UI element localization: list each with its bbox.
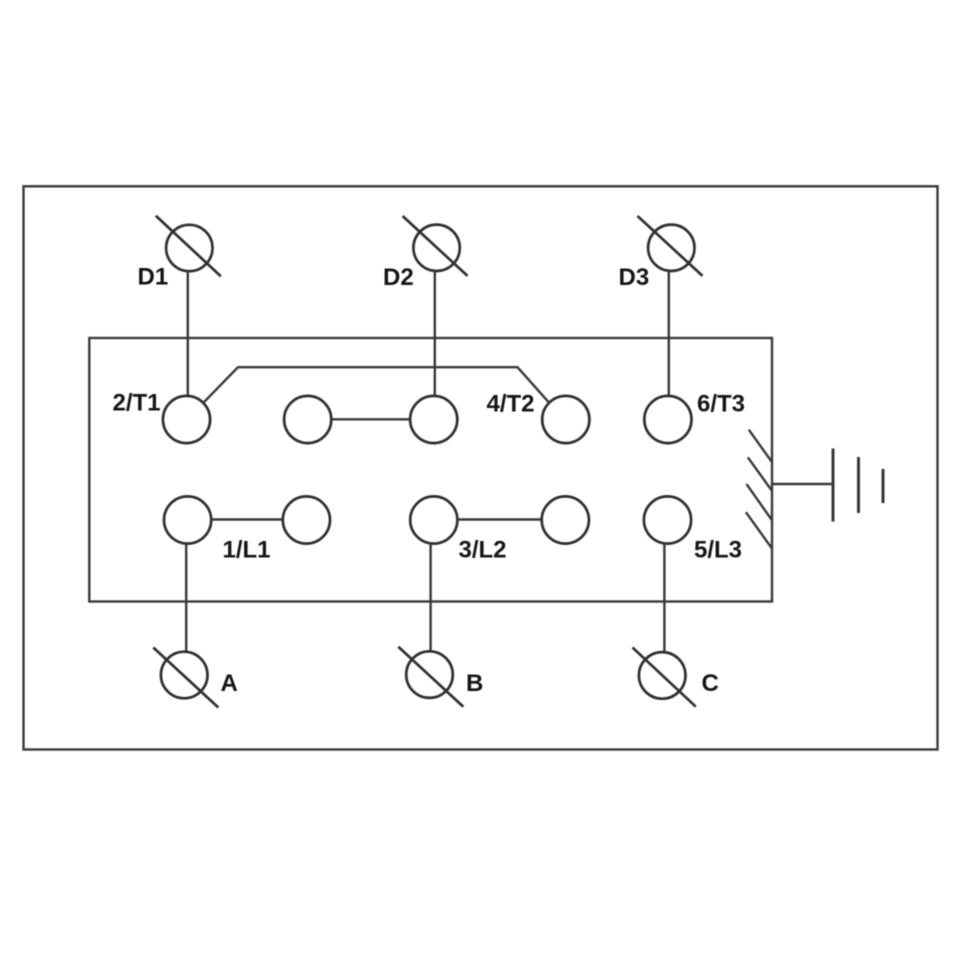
chassis hatch 3: [747, 484, 772, 520]
svg-text:1/L1: 1/L1: [223, 537, 271, 564]
terminal 3/L2: [410, 496, 457, 543]
svg-text:A: A: [221, 670, 238, 697]
ground symbol: [833, 449, 883, 522]
wire D3 to 6/T3: [668, 271, 670, 396]
chassis hatch 1: [749, 430, 772, 462]
wire 1/L1 pair: [211, 518, 283, 520]
svg-text:D2: D2: [383, 264, 414, 291]
connector D2: [403, 216, 468, 276]
connector A: [153, 648, 218, 708]
terminal bottom fourth: [542, 496, 589, 543]
chassis hatch 2: [748, 457, 772, 490]
wire 1/L1 to A: [185, 543, 187, 652]
terminal top middle right: [410, 396, 457, 443]
svg-text:2/T1: 2/T1: [113, 390, 161, 417]
svg-text:D3: D3: [619, 264, 650, 291]
terminal 2/T1: [163, 396, 210, 443]
wire 3/L2 to B: [429, 543, 431, 652]
wire D1 to 2/T1: [187, 271, 189, 396]
terminal top middle left: [284, 396, 331, 443]
svg-text:5/L3: 5/L3: [694, 537, 742, 564]
contactor body box: [89, 338, 772, 602]
wire top middle pair: [331, 418, 411, 420]
connector D1: [156, 216, 221, 276]
svg-text:C: C: [702, 670, 719, 697]
chassis hatch 4: [746, 512, 772, 549]
terminal 4/T2: [542, 396, 589, 443]
svg-text:B: B: [466, 670, 483, 697]
connector B: [398, 647, 463, 707]
terminal bottom second: [283, 496, 330, 543]
enclosure outline: [24, 186, 938, 749]
terminal 5/L3: [644, 496, 691, 543]
terminal 1/L1: [164, 496, 211, 543]
wire to ground: [773, 483, 834, 485]
svg-text:3/L2: 3/L2: [459, 537, 507, 564]
connector C: [633, 648, 696, 707]
connector D3: [638, 216, 703, 276]
wire D2 to middle terminal: [434, 271, 436, 396]
svg-text:D1: D1: [138, 264, 169, 291]
wire 3/L2 pair: [457, 518, 541, 520]
svg-text:4/T2: 4/T2: [487, 391, 535, 418]
wire 5/L3 to C: [663, 543, 665, 652]
terminal 6/T3: [644, 396, 691, 443]
svg-text:6/T3: 6/T3: [697, 391, 745, 418]
wire 2/T1 to 4/T2 bypass: [203, 367, 549, 403]
